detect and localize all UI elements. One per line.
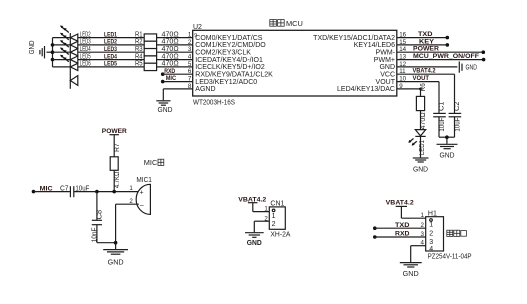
op MCU U2 box bbox=[193, 24, 397, 106]
svg-text:470Ω: 470Ω bbox=[420, 112, 427, 129]
label title audio MCU bbox=[270, 19, 303, 28]
svg-text:PWM-: PWM- bbox=[376, 50, 396, 57]
svg-text:1: 1 bbox=[429, 222, 433, 229]
svg-text:+: + bbox=[140, 190, 144, 197]
svg-text:LED5: LED5 bbox=[80, 53, 91, 60]
resistor R2 bbox=[135, 39, 157, 49]
svg-text:R6: R6 bbox=[420, 83, 427, 91]
svg-text:6: 6 bbox=[188, 68, 192, 75]
wire to pin 1 bbox=[157, 37, 193, 39]
resistor R4 bbox=[135, 53, 157, 63]
wire pin 9 to R6 bbox=[397, 88, 422, 97]
svg-text:LED3: LED3 bbox=[104, 46, 117, 53]
LED D LED1 bbox=[408, 130, 426, 156]
svg-text:–: – bbox=[140, 203, 144, 210]
svg-text:LED1: LED1 bbox=[104, 31, 117, 38]
svg-text:GND: GND bbox=[413, 166, 428, 173]
wire pin 8 to ground bbox=[163, 89, 192, 100]
svg-text:1: 1 bbox=[188, 32, 192, 39]
wire mic pin2 to ground bbox=[114, 204, 139, 249]
svg-text:POWER: POWER bbox=[413, 46, 439, 53]
wire LED cathode bus bbox=[52, 38, 54, 67]
wire RXD to pin 6 bbox=[163, 73, 193, 75]
resistor R7 bbox=[110, 135, 121, 192]
svg-text:LED2: LED2 bbox=[104, 39, 117, 46]
svg-text:MCU_PWR_ON/OFF: MCU_PWR_ON/OFF bbox=[413, 53, 479, 60]
label download port bbox=[447, 230, 467, 236]
wire net LED4 row 3 bbox=[53, 51, 145, 53]
svg-text:RXD/KEY9/DATA1/CL2K: RXD/KEY9/DATA1/CL2K bbox=[195, 72, 273, 79]
svg-text:GND: GND bbox=[108, 259, 124, 266]
connector H1 bbox=[426, 210, 472, 260]
wire net KEY bbox=[397, 43, 449, 47]
svg-text:R4: R4 bbox=[135, 53, 143, 60]
svg-text:4.7KΩ: 4.7KΩ bbox=[114, 172, 121, 189]
wire CN1 pin2 to ground bbox=[254, 221, 269, 232]
svg-text:1: 1 bbox=[129, 185, 133, 192]
svg-text:KEY14/LED6: KEY14/LED6 bbox=[354, 42, 395, 49]
wire LED1 to ground bbox=[420, 136, 422, 157]
svg-text:VBAT4.2: VBAT4.2 bbox=[386, 200, 414, 207]
capacitor C8 bbox=[91, 192, 115, 243]
node bus row4 bbox=[51, 58, 55, 62]
svg-text:2: 2 bbox=[188, 39, 192, 46]
svg-text:TXD: TXD bbox=[418, 31, 433, 38]
wire MIC to pin 7 bbox=[163, 81, 193, 83]
svg-text:MIC: MIC bbox=[144, 158, 158, 167]
resistor R6 bbox=[416, 83, 427, 129]
node MIC bbox=[161, 80, 165, 84]
wire TXD to H1 pin2 bbox=[375, 227, 426, 229]
svg-text:GND: GND bbox=[466, 65, 478, 72]
node C8 tap bbox=[95, 190, 99, 194]
LED D6 bbox=[70, 76, 78, 86]
wire VBAT flag to CN1 pin1 bbox=[248, 203, 269, 212]
ground pin 12 sideways bbox=[459, 62, 477, 73]
wire RXD to H1 pin3 bbox=[375, 236, 426, 238]
svg-text:U2: U2 bbox=[193, 24, 202, 31]
svg-text:LED2: LED2 bbox=[80, 31, 91, 38]
capacitor C1 bbox=[433, 101, 446, 137]
svg-text:COM0/KEY1/DAT/CS: COM0/KEY1/DAT/CS bbox=[195, 35, 262, 42]
node POWER flag bbox=[110, 134, 119, 136]
wire net TXD bbox=[397, 36, 449, 40]
svg-text:3: 3 bbox=[421, 231, 425, 238]
svg-text:1: 1 bbox=[264, 206, 268, 213]
svg-text:2: 2 bbox=[429, 230, 433, 237]
svg-text:MIC1: MIC1 bbox=[136, 177, 152, 184]
svg-text:GND: GND bbox=[403, 271, 419, 278]
resistor R5 bbox=[135, 61, 157, 71]
wire net MCU_PWR_ON/OFF bbox=[397, 58, 486, 62]
wire net POWER bbox=[397, 50, 485, 54]
svg-text:GND: GND bbox=[247, 238, 262, 247]
wire net LED3 row 2 bbox=[53, 44, 145, 46]
svg-text:5: 5 bbox=[188, 61, 192, 68]
svg-text:C1: C1 bbox=[439, 101, 446, 111]
resistor R3 bbox=[135, 46, 157, 56]
label MIC head bbox=[144, 158, 164, 167]
svg-text:VOUT: VOUT bbox=[413, 75, 430, 82]
wire to pin 5 bbox=[157, 66, 193, 68]
wire net LED2 row 1 bbox=[53, 37, 145, 39]
svg-text:GND: GND bbox=[29, 40, 36, 54]
svg-text:C8: C8 bbox=[97, 210, 104, 220]
wire MIC to C7 bbox=[34, 191, 71, 193]
svg-text:LED4: LED4 bbox=[104, 53, 117, 60]
svg-text:4: 4 bbox=[429, 246, 433, 253]
svg-text:PWM+: PWM+ bbox=[374, 57, 395, 64]
svg-text:VCC: VCC bbox=[380, 72, 395, 79]
svg-text:VBAT4.2: VBAT4.2 bbox=[413, 68, 436, 75]
svg-text:WT2003H-16S: WT2003H-16S bbox=[193, 99, 235, 106]
node bus row2 bbox=[51, 43, 55, 47]
svg-text:KEY: KEY bbox=[419, 38, 434, 45]
svg-text:R5: R5 bbox=[135, 61, 143, 68]
wire H1 pin4 to ground bbox=[411, 246, 426, 263]
connector CN1 bbox=[269, 201, 290, 239]
svg-text:R2: R2 bbox=[135, 39, 143, 46]
svg-text:POWER: POWER bbox=[102, 128, 127, 135]
svg-text:XH-2A: XH-2A bbox=[270, 231, 290, 238]
svg-text:R3: R3 bbox=[135, 46, 143, 53]
wire to pin 4 bbox=[157, 59, 193, 61]
svg-text:ICECLK/KEY5/D+/IO2: ICECLK/KEY5/D+/IO2 bbox=[195, 64, 265, 71]
LED D3 bbox=[60, 40, 78, 56]
svg-text:VOUT: VOUT bbox=[376, 79, 396, 86]
svg-text:MCU: MCU bbox=[286, 19, 303, 28]
LED D5 bbox=[60, 55, 78, 71]
LED cathode line bbox=[69, 33, 71, 89]
ground CN1 bbox=[245, 233, 264, 247]
capacitor C7 bbox=[60, 185, 89, 197]
ground H1 bbox=[400, 263, 422, 278]
ground mic bbox=[103, 250, 128, 267]
svg-text:R7: R7 bbox=[114, 143, 121, 152]
resistor R1 bbox=[135, 31, 157, 41]
capacitor C2 bbox=[449, 101, 462, 137]
node MIC net left bbox=[32, 190, 36, 194]
node TXD bbox=[373, 226, 377, 230]
svg-text:1: 1 bbox=[272, 213, 276, 220]
svg-text:TXD/KEY15/ADC1/DATA2: TXD/KEY15/ADC1/DATA2 bbox=[313, 35, 395, 42]
wire R6 to LED1 bbox=[420, 111, 422, 130]
mic MIC1 bbox=[136, 177, 152, 214]
svg-text:LED4: LED4 bbox=[80, 46, 91, 53]
node R7 tap bbox=[112, 190, 116, 194]
wire net LED5 row 4 bbox=[53, 59, 145, 61]
wire pin 12 bbox=[397, 66, 458, 68]
svg-text:4: 4 bbox=[188, 54, 192, 61]
LED D2 bbox=[60, 33, 78, 49]
wire to pin 2 bbox=[157, 44, 193, 46]
svg-text:LED5: LED5 bbox=[104, 61, 117, 68]
svg-text:1: 1 bbox=[421, 212, 425, 219]
wire VBAT flag to H1 pin1 bbox=[396, 206, 426, 218]
svg-text:7: 7 bbox=[188, 76, 192, 83]
svg-text:3: 3 bbox=[429, 239, 433, 246]
svg-text:ICEDAT/KEY4/D-/IO1: ICEDAT/KEY4/D-/IO1 bbox=[195, 57, 263, 64]
svg-text:R1: R1 bbox=[135, 31, 143, 38]
svg-text:2: 2 bbox=[421, 222, 425, 229]
svg-text:LED6: LED6 bbox=[80, 61, 91, 68]
svg-text:COM2/KEY3/CLK: COM2/KEY3/CLK bbox=[195, 50, 251, 57]
svg-text:C7: C7 bbox=[60, 185, 69, 192]
ground LED1 bbox=[413, 158, 429, 173]
svg-text:GND: GND bbox=[379, 64, 395, 71]
svg-text:AGND: AGND bbox=[195, 86, 215, 93]
svg-text:3: 3 bbox=[188, 46, 192, 53]
wire net LED6 row 5 bbox=[53, 66, 145, 68]
ground caps bbox=[437, 144, 458, 159]
svg-text:10uF: 10uF bbox=[454, 118, 461, 132]
node RXD bbox=[161, 72, 165, 76]
svg-text:LED3: LED3 bbox=[80, 39, 91, 46]
ground bbox=[29, 40, 52, 58]
wire C7 to mic bbox=[74, 191, 139, 193]
ground AGND bbox=[156, 101, 172, 114]
svg-text:C2: C2 bbox=[454, 101, 461, 111]
svg-text:COM1/KEY2/CMD/DO: COM1/KEY2/CMD/DO bbox=[195, 42, 266, 49]
node bus row3 bbox=[51, 50, 55, 54]
wire cap join bbox=[439, 135, 455, 144]
node RXD bbox=[373, 235, 377, 239]
wire to pin 3 bbox=[157, 51, 193, 53]
svg-text:GND: GND bbox=[440, 153, 455, 160]
svg-text:2: 2 bbox=[272, 221, 276, 228]
wire pin 10 VOUT to C1 bbox=[397, 82, 439, 114]
svg-text:10uF: 10uF bbox=[439, 118, 446, 132]
svg-text:PZ254V-11-04P: PZ254V-11-04P bbox=[428, 254, 472, 261]
wire pin 11 VBAT to C2 bbox=[397, 74, 455, 113]
svg-text:LED4/KEY13/DAC: LED4/KEY13/DAC bbox=[337, 86, 395, 93]
svg-text:LED3/KEY12/ADC0: LED3/KEY12/ADC0 bbox=[195, 79, 257, 86]
LED D4 bbox=[60, 48, 78, 64]
svg-text:8: 8 bbox=[188, 83, 192, 90]
svg-text:GND: GND bbox=[158, 107, 173, 114]
LED D1 bbox=[60, 26, 78, 42]
